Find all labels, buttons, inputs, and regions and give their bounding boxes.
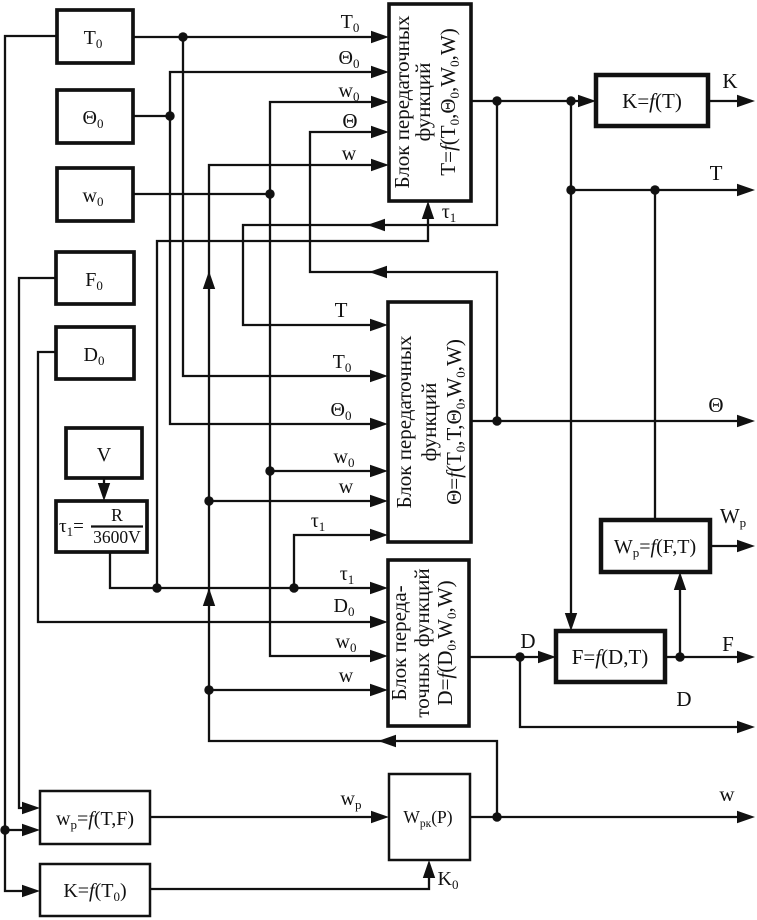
wire T bus down [570,101,572,623]
wire w branch to U3 input w [209,665,388,696]
block tau1 = R/3600V [56,501,147,552]
svg-text:T: T [335,298,348,322]
node junction Theta0 bus [165,111,174,120]
wire w feedback riser [203,143,497,817]
wire w branch to U2 input w [209,476,388,507]
wire T0 box to U1 input T0 [133,11,389,43]
svg-text:F=f(D,T): F=f(D,T) [572,645,649,669]
block K=f(T) [596,75,708,126]
wire Theta0 box to bus [133,115,170,117]
wire tau1 riser to U1 bottom [157,201,456,588]
wire w0 bus up to U1 input w0 [270,80,389,194]
wire T branch down to Wp block top [654,190,656,520]
svg-text:w: w [339,665,354,687]
wire w0 bus down [270,194,381,656]
svg-text:w: w [719,782,735,806]
svg-text:3600V: 3600V [93,527,141,547]
block T0 source [57,10,133,63]
svg-text:Θ: Θ [342,109,357,133]
svg-text:K=f(T): K=f(T) [622,89,682,113]
wire D0 box left to U3 input D0 [38,352,388,628]
block V source [66,428,142,478]
svg-text:T: T [710,161,723,185]
wire U2 output Theta to right edge [471,393,755,427]
node junction T output line [566,185,575,194]
wire Wp block output [710,504,755,552]
block U1: Блок передаточных функций T=f(T0,Theta0,W0,W) [389,4,471,201]
svg-text:D: D [520,629,535,653]
wire T0 box left to bottom bus [5,36,57,897]
svg-text:Блок переда-: Блок переда- [387,585,411,700]
wire w0 branch to U2 input w0 [270,446,388,477]
svg-text:Блок передаточных: Блок передаточных [392,335,416,509]
wire U3 output D to F block [469,629,556,663]
node junction w out [492,812,501,821]
svg-text:F: F [722,632,734,656]
svg-text:Wp=f(F,T): Wp=f(F,T) [614,536,696,560]
wire K output [708,69,755,107]
node junction tau1 line left [152,583,161,592]
block U2: Блок передаточных функций Theta=f(T0,T,Theta0,W0,W) [388,302,471,542]
wire D output to right edge [520,657,755,733]
block Wp=f(F,T) [601,520,710,572]
node junction w to U2 [204,496,213,505]
block wp=f(T,F) [40,791,150,844]
wire T0 bus branch to wp block [5,824,40,836]
svg-text:Т=f(Т0,Θ0,W0,W): Т=f(Т0,Θ0,W0,W) [436,28,462,175]
svg-text:функций: функций [411,63,435,142]
svg-text:w: w [339,476,354,498]
block U3: Блок переда- точных функций D=f(D0,W0,W) [387,560,469,726]
block D0 source [56,327,134,379]
node junction T0 line [178,32,187,41]
wire T feedback to U2 input T [243,101,497,331]
wire Theta0 bus up to U1 input Theta0 [170,47,389,116]
node junction w0 to U2 [265,466,274,475]
wire tau1 riser to U2 input tau1 [294,510,388,588]
wire T0 bus down to U2 input T0 [183,37,388,382]
svg-text:w: w [342,143,357,165]
node junction D out [515,652,524,661]
wire w0 box to bus [133,193,270,195]
wire V to tau1 block [98,478,110,501]
node junction T to Wp branch [650,185,659,194]
wire wp block output to WpK input [150,788,389,823]
svg-text:K: K [722,69,737,93]
wire Theta feedback to U1 input Theta [310,109,497,421]
svg-text:wp=f(T,F): wp=f(T,F) [56,808,134,832]
wire U1 output T to K block [471,95,596,107]
svg-text:точных функций: точных функций [410,568,434,717]
wire w bus: WpK output and feedback [470,782,755,823]
svg-text:D: D [676,687,691,711]
node junction T out A [492,96,501,105]
svg-text:D=f(D0,W0,W): D=f(D0,W0,W) [433,580,459,705]
wire tau1 distribution line [110,552,388,594]
node junction tau1 line mid [289,583,298,592]
svg-text:V: V [97,444,112,466]
block F=f(D,T) [556,631,665,682]
block WpK(P) regulator [389,774,470,860]
block K=f(T0) [40,864,150,916]
block Theta0 source [57,90,133,143]
wire F0 box left to wp block [19,278,56,814]
wire K=f(T0) output to WpK bottom K0 [150,860,458,892]
wire T output to right edge [571,161,755,196]
node junction w0 bus top [265,189,274,198]
svg-text:Θ: Θ [708,393,723,417]
block F0 source [56,252,134,304]
node junction Theta out [492,416,501,425]
svg-text:функций: функций [417,383,441,462]
node junction F out [675,652,684,661]
svg-text:R: R [111,505,123,525]
wire Theta0 bus down to U2 input Theta0 [170,116,388,430]
node junction T out B [566,96,575,105]
node junction w to U3 [204,685,213,694]
svg-text:Θ=f(Т0,Т,Θ0,W0,W): Θ=f(Т0,Т,Θ0,W0,W) [442,339,468,505]
wire w0 branch to U3 input w0 [336,631,388,662]
node junction T0 bottom bus [0,825,9,834]
wire T bus arrow into F block top [565,613,577,631]
wire F branch up to Wp block bottom [674,572,686,657]
block w0 source [57,168,133,221]
wire F block output to right edge [665,632,755,663]
